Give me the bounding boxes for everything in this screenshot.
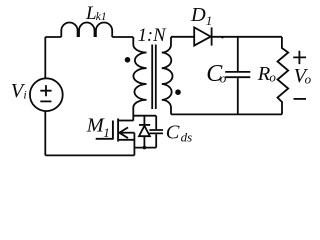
wire inductor to transformer primary corner (112, 36, 133, 38)
capacitor Cds (155, 116, 157, 129)
wire diode to resistor corner (211, 36, 282, 38)
svg-text:o: o (269, 70, 276, 85)
MOSFET M1 drain stub (118, 120, 133, 122)
node dot primary (top) (125, 57, 131, 63)
MOSFET source stub (118, 139, 134, 141)
junction speck on rail (221, 36, 223, 38)
svg-text:o: o (220, 70, 227, 85)
MOSFET body stub with arrow (120, 132, 134, 134)
drain node rail (133, 115, 156, 117)
wire top-left from source corner to inductor (45, 36, 61, 38)
wire output bottom rail (171, 113, 282, 115)
diode D1 (194, 27, 211, 45)
svg-text:C: C (166, 122, 180, 144)
wire left vertical bottom (44, 111, 46, 155)
MOSFET gate bar (112, 121, 114, 140)
svg-text:1:N: 1:N (138, 25, 167, 46)
svg-text:D: D (190, 4, 206, 26)
mid rail (source node) (134, 147, 156, 149)
node dot secondary (bottom) (175, 89, 181, 95)
transformer secondary winding (162, 37, 173, 115)
body diode of M1 (143, 116, 145, 125)
MOSFET channel bar (117, 119, 119, 142)
svg-text:1: 1 (103, 125, 110, 140)
voltage source Vi (30, 78, 63, 111)
svg-text:i: i (23, 88, 26, 102)
wire secondary to diode (171, 36, 194, 38)
svg-text:1: 1 (206, 13, 213, 28)
svg-text:M: M (86, 114, 105, 136)
svg-text:k1: k1 (96, 11, 107, 23)
transformer primary winding (133, 37, 146, 121)
source vertical down to bottom rail (133, 133, 135, 156)
wire bottom rail (45, 154, 134, 156)
junction dot mid rail at body diode (143, 146, 147, 150)
capacitor Co (237, 37, 239, 71)
output plus sign (293, 51, 306, 64)
wire left vertical top (44, 37, 46, 78)
svg-text:ds: ds (181, 130, 193, 145)
MOSFET gate lead (96, 138, 113, 140)
inductor Lk1 (61, 23, 112, 38)
svg-text:o: o (305, 71, 312, 86)
resistor Ro (278, 37, 289, 114)
output minus sign (294, 98, 307, 100)
transformer core (152, 45, 156, 110)
